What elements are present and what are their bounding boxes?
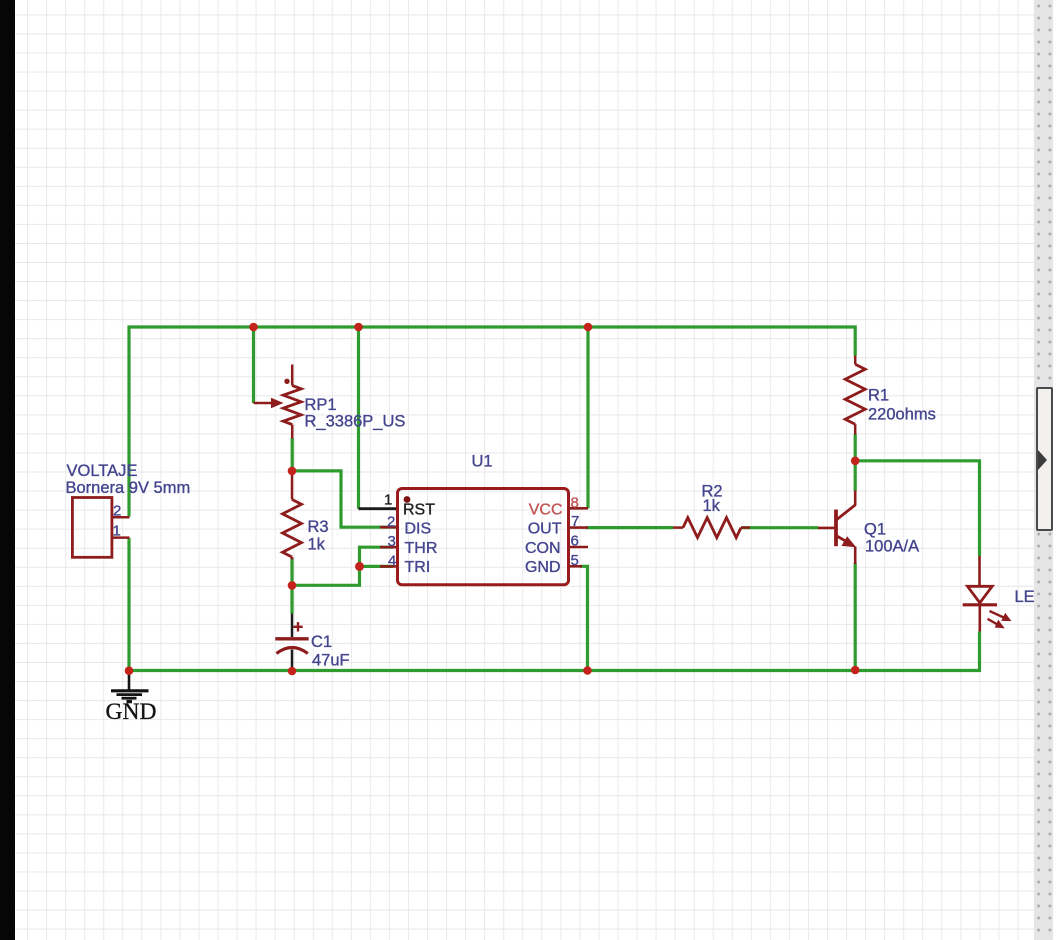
transistor Q1 collector diagonal — [837, 505, 856, 520]
svg-text:5: 5 — [571, 552, 579, 569]
LED LED1 anode lead — [978, 556, 981, 586]
svg-text:GND: GND — [106, 699, 157, 725]
connector J1 VOLTAJE body — [72, 498, 112, 558]
svg-text:1: 1 — [384, 492, 392, 509]
resistor R3 body — [283, 500, 302, 558]
svg-text:1k: 1k — [308, 536, 326, 554]
wire bottom GND rail — [129, 669, 980, 672]
wire THR to TRI to R3 bottom — [292, 547, 393, 585]
capacitor C1 plus sign — [293, 622, 302, 631]
LED LED1 triangle — [968, 586, 993, 603]
resistor R2 right lead — [741, 526, 750, 529]
wire rail to VCC pin 8 — [586, 327, 589, 508]
svg-text:4: 4 — [388, 553, 396, 570]
U1 pin 6 stub — [569, 546, 589, 549]
U1 pin 5 stub — [569, 565, 583, 568]
svg-text:RP1: RP1 — [305, 396, 337, 414]
U1 pin 7 stub — [569, 526, 589, 529]
svg-text:3: 3 — [388, 533, 396, 550]
resistor R2 left lead — [673, 526, 683, 529]
transistor Q1 emitter arrowhead — [842, 536, 857, 547]
capacitor C1 bottom black lead — [291, 650, 294, 669]
potentiometer RP1 wiper arrowhead — [271, 398, 284, 408]
U1 pin 1 indicator dot — [404, 496, 411, 503]
wire RP1 bottom to R3 top — [291, 438, 294, 471]
wire rail to RP1 wiper — [252, 327, 255, 403]
node rail / C1 bottom — [288, 667, 297, 676]
svg-text:220ohms: 220ohms — [868, 406, 936, 424]
svg-text:8: 8 — [571, 495, 579, 512]
potentiometer RP1 bottom lead — [291, 425, 294, 439]
transistor Q1 base bar — [834, 510, 838, 547]
wire GND pin 5 to rail — [580, 566, 588, 670]
svg-text:C1: C1 — [311, 633, 332, 651]
resistor R2 body — [683, 518, 741, 538]
svg-text:6: 6 — [571, 533, 579, 550]
LED LED1 emission arrow 1 — [990, 611, 1005, 618]
svg-text:R1: R1 — [868, 387, 889, 405]
wire TRI branch pin 4 — [360, 565, 394, 568]
node R3 bottom / C1 — [288, 581, 297, 590]
svg-text:R_3386P_US: R_3386P_US — [305, 413, 406, 431]
op-amp U1 555 timer body — [398, 489, 569, 585]
wire R2 to Q1 base — [741, 526, 818, 529]
node top rail / RST — [354, 323, 363, 332]
potentiometer RP1 wiper arrow shaft — [254, 402, 275, 405]
svg-text:2: 2 — [387, 514, 395, 531]
U1 pin 2 stub — [380, 526, 398, 529]
U1 pin 4 stub — [380, 565, 398, 568]
potentiometer RP1 top lead — [291, 365, 294, 386]
LED LED1 cathode bar — [963, 603, 997, 606]
wire rail to RST — [357, 327, 360, 509]
node rail / Q1 emitter — [851, 666, 860, 675]
transistor Q1 collector lead — [854, 491, 857, 506]
resistor R3 top lead — [291, 471, 294, 500]
wire top +9V rail — [129, 327, 855, 356]
wire left vertical to pin2 — [127, 326, 130, 517]
U1 pin 8 stub — [569, 507, 589, 510]
svg-text:Q1: Q1 — [864, 521, 886, 539]
node rail / left vertical — [125, 666, 134, 675]
wire R3 bottom to C1 top — [290, 558, 293, 614]
svg-text:CON: CON — [525, 540, 561, 557]
svg-text:OUT: OUT — [528, 521, 562, 538]
node TRI junction — [355, 562, 364, 571]
wire R1 bottom to Q1 collector — [854, 434, 857, 491]
connector pin 2 stub — [112, 516, 130, 519]
svg-text:GND: GND — [525, 559, 561, 576]
wire pin1 to bottom rail — [127, 538, 130, 671]
capacitor C1 top black lead — [291, 614, 294, 638]
svg-text:DIS: DIS — [405, 521, 432, 538]
connector pin 1 stub — [112, 536, 130, 539]
svg-text:R3: R3 — [308, 518, 329, 536]
svg-text:VCC: VCC — [529, 501, 563, 518]
potentiometer RP1 body — [283, 386, 301, 425]
LED LED1 emission arrow 2 — [988, 619, 998, 625]
LED LED1 cathode lead — [978, 605, 981, 632]
wire R3 top to DIS pin 2 — [292, 471, 397, 527]
resistor R1 top lead — [854, 356, 857, 365]
wire RST black segment pin 1 — [359, 507, 398, 510]
svg-text:U1: U1 — [472, 453, 493, 471]
svg-text:Bornera 9V 5mm: Bornera 9V 5mm — [66, 479, 191, 497]
wire R1 bottom to LED anode — [855, 461, 979, 556]
svg-text:VOLTAJE: VOLTAJE — [67, 462, 138, 480]
wire Q1 emitter to rail — [854, 563, 857, 671]
svg-text:2: 2 — [113, 503, 121, 520]
svg-text:THR: THR — [405, 540, 438, 557]
resistor R1 body — [845, 364, 865, 424]
node R1 bottom / collector / LED — [851, 457, 860, 466]
transistor Q1 base lead — [818, 527, 835, 530]
capacitor C1 top plate — [275, 637, 308, 640]
resistor R1 bottom lead — [854, 424, 857, 434]
svg-text:47uF: 47uF — [312, 652, 350, 670]
transistor Q1 emitter lead — [854, 547, 857, 565]
wire OUT pin 7 to R2 — [586, 526, 673, 529]
potentiometer RP1 pin dot — [284, 379, 289, 384]
svg-text:1k: 1k — [703, 497, 721, 515]
node R3 top — [288, 467, 297, 476]
node rail / U1 GND — [583, 666, 592, 675]
wire LED cathode to rail — [978, 632, 981, 673]
ground symbol — [111, 671, 149, 702]
svg-text:100A/A: 100A/A — [865, 538, 919, 556]
U1 pin 3 stub — [380, 546, 398, 549]
svg-text:TRI: TRI — [405, 559, 431, 576]
transistor Q1 emitter diagonal — [837, 536, 853, 545]
svg-text:1: 1 — [113, 523, 121, 540]
node top rail / VCC — [584, 323, 593, 332]
svg-text:RST: RST — [403, 501, 435, 518]
resistor R3 bottom lead — [291, 557, 294, 560]
capacitor C1 curved plate — [277, 648, 308, 654]
svg-text:7: 7 — [571, 513, 579, 530]
node top rail / RP1 wiper — [249, 323, 258, 332]
